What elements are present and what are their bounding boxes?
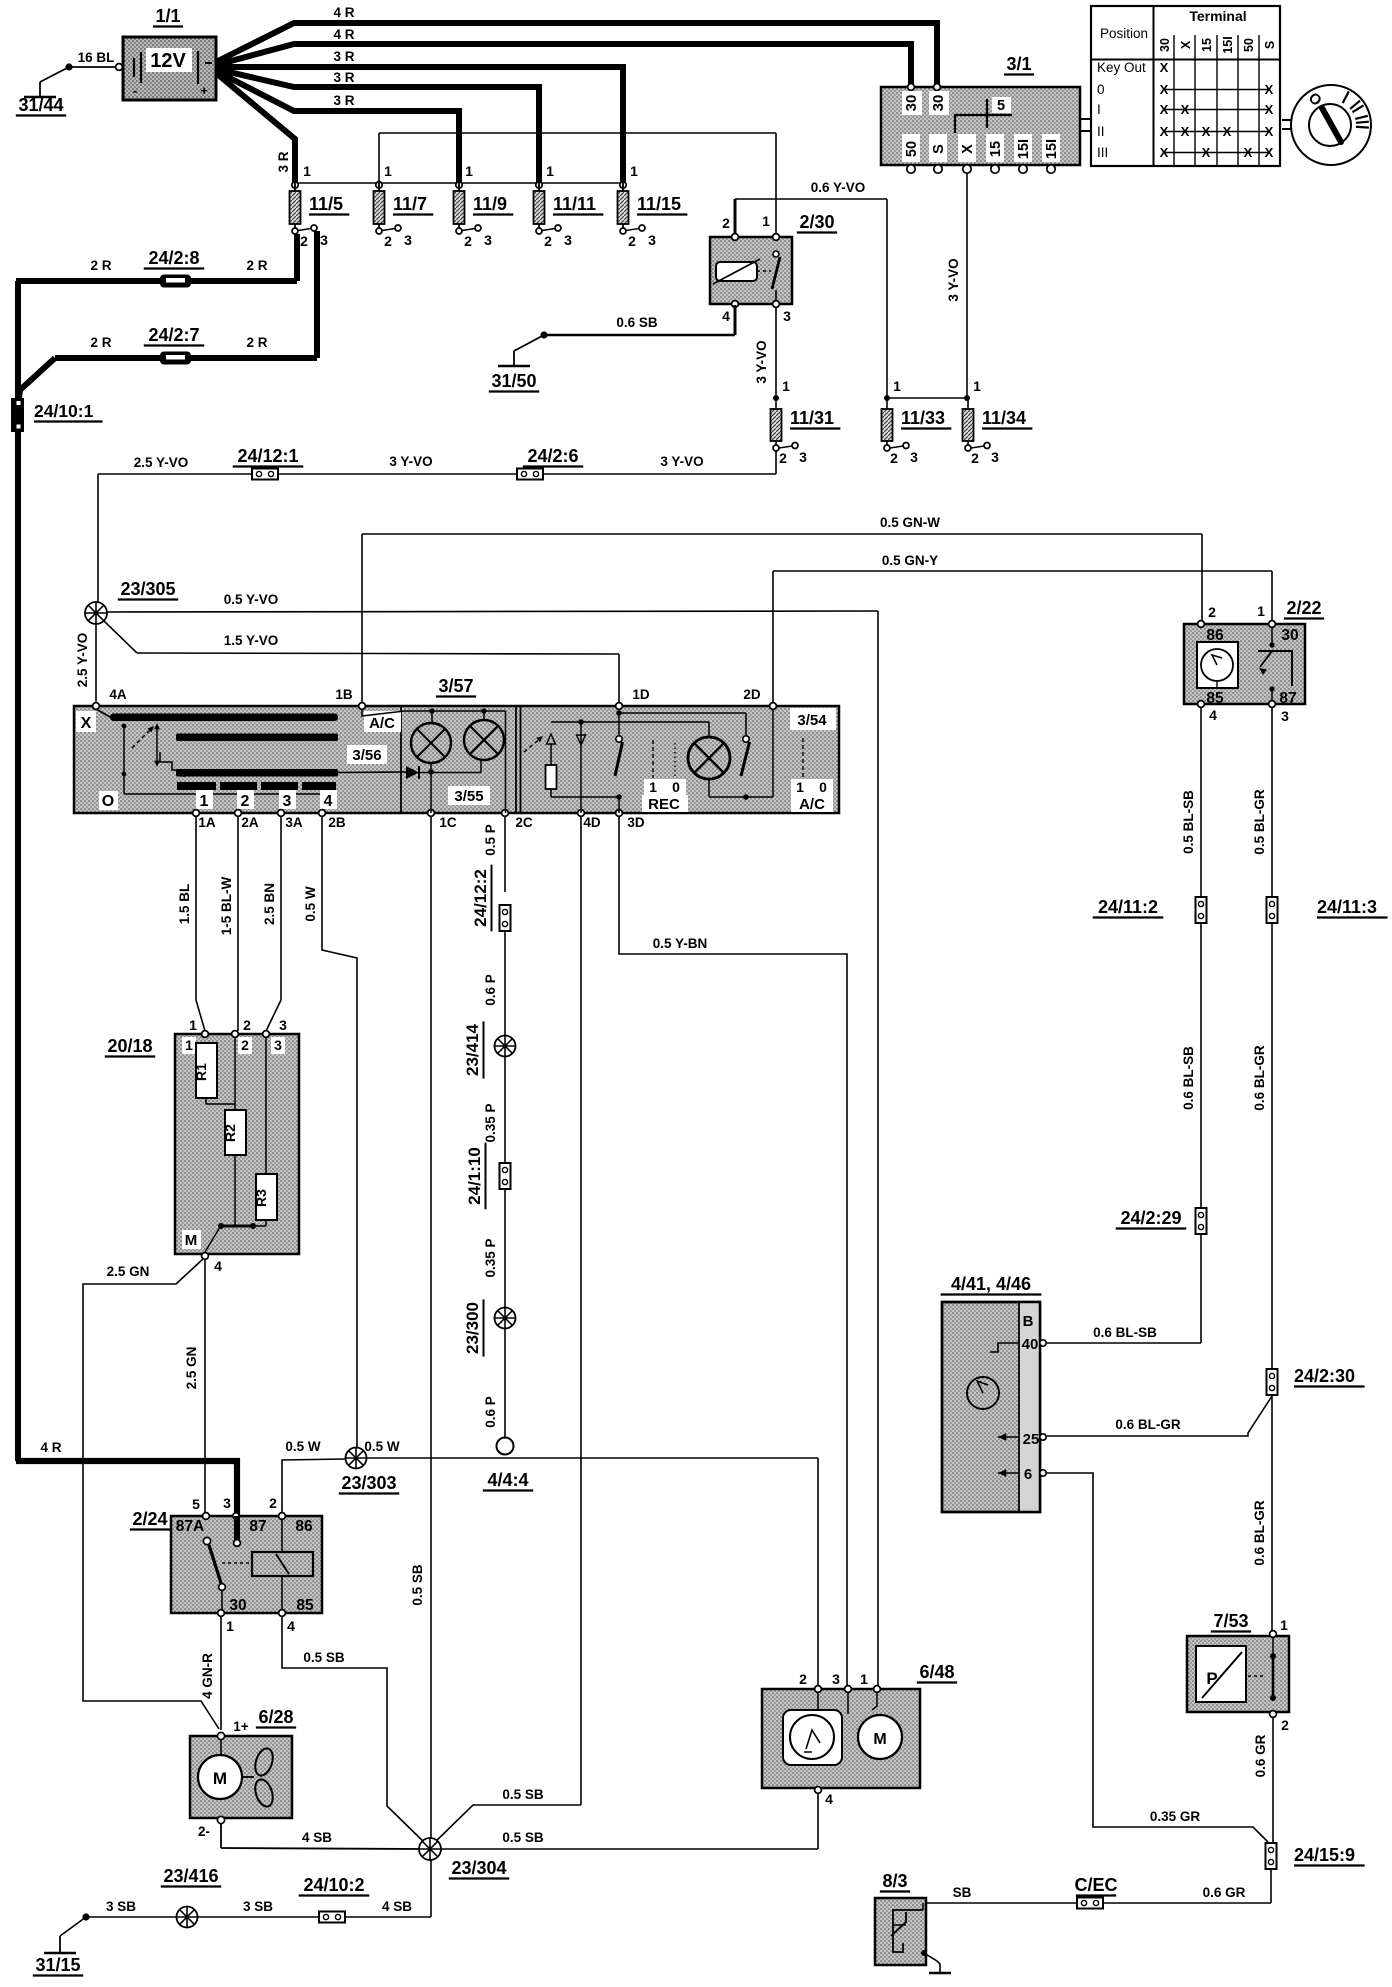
svg-text:3: 3: [279, 1017, 287, 1033]
svg-text:3: 3: [832, 1671, 840, 1687]
svg-text:11/7: 11/7: [393, 194, 427, 214]
svg-text:0: 0: [1097, 82, 1105, 97]
svg-text:O: O: [102, 793, 114, 810]
svg-text:S: S: [1263, 41, 1277, 49]
svg-text:3: 3: [783, 308, 791, 324]
svg-text:REC: REC: [648, 796, 680, 813]
svg-text:2A: 2A: [241, 815, 259, 830]
svg-text:4 SB: 4 SB: [382, 1899, 412, 1914]
svg-text:2-: 2-: [198, 1824, 210, 1839]
svg-text:3: 3: [799, 449, 807, 465]
svg-text:0.6 GR: 0.6 GR: [1253, 1734, 1268, 1777]
svg-text:3 R: 3 R: [333, 93, 354, 108]
svg-text:11/15: 11/15: [637, 194, 681, 214]
svg-text:X: X: [1160, 124, 1169, 139]
svg-text:3 Y-VO: 3 Y-VO: [754, 340, 769, 383]
svg-text:X: X: [81, 715, 92, 732]
svg-text:2: 2: [628, 233, 636, 249]
svg-text:4 GN-R: 4 GN-R: [200, 1653, 215, 1699]
svg-text:2: 2: [1208, 604, 1216, 620]
svg-text:3 R: 3 R: [333, 49, 354, 64]
svg-text:2: 2: [241, 1037, 249, 1053]
svg-text:R2: R2: [222, 1124, 238, 1142]
svg-text:31/44: 31/44: [18, 95, 63, 115]
svg-text:85: 85: [296, 1597, 314, 1614]
svg-text:2: 2: [300, 233, 308, 249]
svg-text:7/53: 7/53: [1213, 1611, 1248, 1631]
svg-text:1: 1: [860, 1671, 868, 1687]
svg-text:87A: 87A: [176, 1518, 204, 1535]
svg-text:3: 3: [320, 232, 328, 248]
svg-text:0.5 SB: 0.5 SB: [502, 1830, 544, 1845]
svg-text:0.6 BL-GR: 0.6 BL-GR: [1252, 1500, 1267, 1566]
svg-text:20/18: 20/18: [107, 1036, 152, 1056]
svg-text:2: 2: [544, 233, 552, 249]
svg-text:2.5 GN: 2.5 GN: [107, 1264, 150, 1279]
svg-text:24/1:10: 24/1:10: [465, 1147, 484, 1205]
svg-text:87: 87: [1279, 690, 1296, 707]
svg-text:1A: 1A: [198, 815, 216, 830]
svg-text:2.5 Y-VO: 2.5 Y-VO: [75, 633, 90, 688]
svg-text:40: 40: [1022, 1336, 1039, 1353]
svg-text:0.35 P: 0.35 P: [483, 1238, 498, 1277]
svg-text:3/55: 3/55: [454, 788, 483, 805]
svg-text:0.6 BL-SB: 0.6 BL-SB: [1093, 1325, 1157, 1340]
svg-text:87: 87: [249, 1518, 266, 1535]
svg-text:24/2:29: 24/2:29: [1120, 1208, 1181, 1228]
svg-text:24/10:2: 24/10:2: [303, 1875, 364, 1895]
svg-text:4/41, 4/46: 4/41, 4/46: [951, 1274, 1031, 1294]
svg-text:2: 2: [243, 1017, 251, 1033]
svg-text:3 Y-VO: 3 Y-VO: [946, 258, 961, 301]
svg-text:0.5 GN-Y: 0.5 GN-Y: [882, 553, 938, 568]
svg-text:2.5 GN: 2.5 GN: [184, 1347, 199, 1390]
svg-text:2 R: 2 R: [90, 258, 111, 273]
svg-text:3/1: 3/1: [1006, 54, 1031, 74]
svg-text:0.35 GR: 0.35 GR: [1150, 1809, 1201, 1824]
svg-text:0: 0: [819, 779, 827, 795]
svg-text:0.5 GN-W: 0.5 GN-W: [880, 515, 940, 530]
svg-text:15I: 15I: [1044, 139, 1060, 159]
svg-text:3 Y-VO: 3 Y-VO: [389, 454, 432, 469]
svg-text:M: M: [213, 1769, 227, 1788]
svg-text:2: 2: [890, 450, 898, 466]
svg-text:X: X: [1223, 124, 1232, 139]
svg-text:2: 2: [464, 233, 472, 249]
svg-text:Key Out: Key Out: [1097, 60, 1146, 75]
svg-text:0.6 BL-GR: 0.6 BL-GR: [1252, 1045, 1267, 1111]
svg-text:2D: 2D: [743, 687, 761, 702]
svg-text:23/300: 23/300: [463, 1302, 482, 1354]
svg-text:X: X: [1160, 145, 1169, 160]
svg-text:X: X: [1160, 102, 1169, 117]
svg-text:2.5 BN: 2.5 BN: [262, 883, 277, 925]
svg-text:3/54: 3/54: [797, 712, 827, 729]
svg-text:1: 1: [303, 163, 311, 179]
svg-text:24/12:1: 24/12:1: [237, 446, 298, 466]
svg-text:X: X: [1202, 124, 1211, 139]
svg-text:0: 0: [672, 779, 680, 795]
svg-text:3: 3: [910, 449, 918, 465]
svg-text:0.5 SB: 0.5 SB: [502, 1787, 544, 1802]
svg-text:30: 30: [1281, 627, 1298, 644]
svg-text:1: 1: [893, 378, 901, 394]
svg-text:0.6 BL-GR: 0.6 BL-GR: [1115, 1417, 1181, 1432]
svg-text:15: 15: [1200, 38, 1214, 52]
svg-text:2: 2: [384, 233, 392, 249]
svg-text:31/50: 31/50: [491, 371, 536, 391]
svg-text:24/10:1: 24/10:1: [34, 401, 94, 421]
svg-text:24/2:6: 24/2:6: [527, 446, 578, 466]
svg-text:4D: 4D: [583, 815, 601, 830]
svg-text:X: X: [1160, 82, 1169, 97]
svg-text:0.6 SB: 0.6 SB: [616, 315, 658, 330]
svg-text:1B: 1B: [335, 687, 353, 702]
svg-text:11/34: 11/34: [982, 408, 1026, 428]
svg-text:A/C: A/C: [799, 796, 825, 813]
svg-text:1: 1: [762, 213, 770, 229]
svg-text:50: 50: [904, 141, 920, 157]
svg-text:3: 3: [484, 232, 492, 248]
svg-text:III: III: [1097, 145, 1108, 160]
svg-text:1: 1: [226, 1618, 234, 1634]
svg-text:1: 1: [630, 163, 638, 179]
svg-text:4 SB: 4 SB: [302, 1830, 332, 1845]
svg-text:24/2:30: 24/2:30: [1294, 1366, 1355, 1386]
svg-text:M: M: [873, 1731, 886, 1748]
svg-text:3D: 3D: [627, 815, 645, 830]
svg-text:23/303: 23/303: [341, 1473, 396, 1493]
svg-text:5: 5: [192, 1496, 200, 1512]
svg-text:0.5 SB: 0.5 SB: [303, 1650, 345, 1665]
svg-text:2/24: 2/24: [132, 1509, 167, 1529]
svg-text:3A: 3A: [285, 815, 303, 830]
svg-text:2: 2: [269, 1495, 277, 1511]
svg-text:I: I: [1097, 102, 1101, 117]
svg-text:X: X: [1265, 82, 1274, 97]
svg-text:6/48: 6/48: [919, 1662, 954, 1682]
svg-text:4 R: 4 R: [40, 1440, 61, 1455]
svg-text:24/2:7: 24/2:7: [148, 325, 199, 345]
svg-text:1: 1: [384, 163, 392, 179]
svg-text:0.35 P: 0.35 P: [483, 1103, 498, 1142]
svg-text:1C: 1C: [439, 815, 457, 830]
svg-text:11/5: 11/5: [309, 194, 343, 214]
svg-text:15I: 15I: [1221, 36, 1235, 53]
svg-text:11/11: 11/11: [553, 194, 596, 214]
svg-text:X: X: [1179, 40, 1193, 49]
svg-text:X: X: [1181, 102, 1190, 117]
svg-text:3: 3: [991, 449, 999, 465]
svg-text:6: 6: [1024, 1466, 1032, 1483]
svg-text:4: 4: [722, 308, 730, 324]
svg-text:3 SB: 3 SB: [106, 1899, 136, 1914]
svg-text:24/11:2: 24/11:2: [1098, 897, 1158, 917]
svg-text:3: 3: [1281, 708, 1289, 724]
svg-text:3: 3: [404, 232, 412, 248]
svg-text:24/2:8: 24/2:8: [148, 248, 199, 268]
svg-text:A/C: A/C: [369, 715, 395, 732]
svg-text:X: X: [1160, 60, 1169, 75]
svg-text:C/EC: C/EC: [1074, 1875, 1117, 1895]
svg-text:4: 4: [214, 1258, 222, 1274]
svg-text:3 Y-VO: 3 Y-VO: [660, 454, 703, 469]
svg-text:X: X: [1265, 145, 1274, 160]
svg-text:30: 30: [229, 1597, 246, 1614]
svg-text:1-5 BL-W: 1-5 BL-W: [219, 876, 234, 935]
svg-text:II: II: [1097, 124, 1105, 139]
svg-text:3 R: 3 R: [276, 151, 291, 172]
svg-text:30: 30: [930, 95, 947, 112]
svg-text:1: 1: [1257, 603, 1265, 619]
svg-text:1: 1: [649, 779, 657, 795]
svg-text:Terminal: Terminal: [1189, 8, 1246, 24]
svg-text:1: 1: [782, 378, 790, 394]
svg-text:11/9: 11/9: [473, 194, 507, 214]
svg-text:11/33: 11/33: [901, 408, 945, 428]
svg-text:1.5 BL: 1.5 BL: [177, 884, 192, 925]
svg-text:86: 86: [295, 1518, 313, 1535]
svg-text:0.6 GR: 0.6 GR: [1203, 1885, 1246, 1900]
svg-text:50: 50: [1242, 38, 1256, 52]
svg-text:31/15: 31/15: [35, 1955, 80, 1975]
svg-text:R1: R1: [193, 1063, 209, 1081]
svg-text:86: 86: [1206, 627, 1224, 644]
svg-text:2 R: 2 R: [246, 335, 267, 350]
svg-text:23/416: 23/416: [163, 1866, 218, 1886]
svg-text:X: X: [960, 144, 976, 154]
svg-text:1: 1: [1280, 1617, 1288, 1633]
svg-text:3: 3: [648, 232, 656, 248]
svg-text:24/15:9: 24/15:9: [1294, 1845, 1355, 1865]
svg-text:2: 2: [722, 215, 730, 231]
svg-text:4 R: 4 R: [333, 5, 354, 20]
svg-text:X: X: [1244, 145, 1253, 160]
svg-text:0.5 Y-BN: 0.5 Y-BN: [653, 936, 708, 951]
svg-text:3/56: 3/56: [352, 747, 381, 764]
svg-text:3: 3: [283, 793, 292, 810]
svg-text:1: 1: [189, 1017, 197, 1033]
svg-text:0.5 BL-SB: 0.5 BL-SB: [1181, 790, 1196, 854]
svg-text:0.5 BL-GR: 0.5 BL-GR: [1252, 789, 1267, 855]
svg-text:+: +: [200, 83, 208, 98]
svg-text:11/31: 11/31: [790, 408, 834, 428]
svg-text:3 R: 3 R: [333, 70, 354, 85]
svg-text:0.5 Y-VO: 0.5 Y-VO: [224, 592, 279, 607]
svg-text:SB: SB: [953, 1885, 972, 1900]
svg-text:23/414: 23/414: [463, 1023, 482, 1076]
svg-text:4A: 4A: [109, 687, 127, 702]
svg-text:8/3: 8/3: [882, 1871, 907, 1891]
svg-text:24/11:3: 24/11:3: [1317, 897, 1377, 917]
svg-text:3/57: 3/57: [438, 676, 473, 696]
svg-text:24/12:2: 24/12:2: [471, 869, 490, 927]
svg-text:R3: R3: [253, 1189, 269, 1207]
svg-text:4: 4: [287, 1618, 295, 1634]
svg-text:0.5 W: 0.5 W: [303, 886, 318, 922]
svg-text:2 R: 2 R: [246, 258, 267, 273]
svg-text:1: 1: [465, 163, 473, 179]
svg-text:0.5 P: 0.5 P: [483, 824, 498, 856]
svg-text:1D: 1D: [632, 687, 650, 702]
svg-text:2 R: 2 R: [90, 335, 111, 350]
svg-text:1: 1: [546, 163, 554, 179]
svg-text:6/28: 6/28: [258, 1707, 293, 1727]
svg-text:2.5 Y-VO: 2.5 Y-VO: [134, 455, 189, 470]
svg-text:4: 4: [1209, 707, 1217, 723]
svg-text:X: X: [1181, 124, 1190, 139]
svg-text:0.6 P: 0.6 P: [483, 974, 498, 1006]
svg-text:X: X: [1265, 124, 1274, 139]
svg-text:M: M: [185, 1232, 198, 1249]
svg-text:4/4:4: 4/4:4: [487, 1470, 528, 1490]
svg-text:1/1: 1/1: [155, 6, 180, 26]
svg-text:1: 1: [200, 793, 209, 810]
svg-text:2: 2: [799, 1671, 807, 1687]
svg-text:3 SB: 3 SB: [243, 1899, 273, 1914]
svg-text:2: 2: [971, 450, 979, 466]
svg-text:12V: 12V: [150, 50, 186, 72]
svg-text:1: 1: [973, 378, 981, 394]
svg-text:30: 30: [903, 95, 920, 112]
svg-text:S: S: [931, 144, 947, 154]
svg-text:B: B: [1023, 1313, 1034, 1330]
svg-text:1: 1: [796, 779, 804, 795]
svg-text:3: 3: [564, 232, 572, 248]
svg-text:3: 3: [274, 1037, 282, 1053]
svg-text:3: 3: [223, 1495, 231, 1511]
svg-text:-: -: [133, 83, 137, 98]
svg-text:4: 4: [825, 1791, 833, 1807]
svg-text:2/30: 2/30: [799, 212, 834, 232]
svg-text:0.6 Y-VO: 0.6 Y-VO: [811, 180, 866, 195]
svg-text:25: 25: [1023, 1431, 1040, 1448]
svg-text:30: 30: [1158, 38, 1172, 52]
svg-text:23/304: 23/304: [451, 1858, 506, 1878]
svg-text:23/305: 23/305: [120, 579, 175, 599]
svg-text:2/22: 2/22: [1286, 598, 1321, 618]
svg-text:4 R: 4 R: [333, 27, 354, 42]
svg-text:4: 4: [324, 793, 333, 810]
svg-text:1: 1: [185, 1037, 193, 1053]
svg-text:15: 15: [988, 141, 1004, 157]
svg-text:2: 2: [779, 450, 787, 466]
svg-text:2C: 2C: [515, 815, 533, 830]
svg-text:2B: 2B: [328, 815, 346, 830]
svg-text:X: X: [1202, 145, 1211, 160]
svg-text:0.5 SB: 0.5 SB: [410, 1564, 425, 1606]
svg-text:Position: Position: [1100, 26, 1148, 41]
svg-text:16 BL: 16 BL: [78, 50, 115, 65]
svg-text:1.5 Y-VO: 1.5 Y-VO: [224, 633, 279, 648]
svg-text:85: 85: [1206, 690, 1224, 707]
svg-text:1+: 1+: [233, 1719, 249, 1734]
svg-text:X: X: [1265, 102, 1274, 117]
svg-text:2: 2: [241, 793, 250, 810]
svg-text:0.5 W: 0.5 W: [285, 1439, 321, 1454]
svg-text:2: 2: [1281, 1717, 1289, 1733]
svg-text:0.5 W: 0.5 W: [364, 1439, 400, 1454]
svg-text:0.6 BL-SB: 0.6 BL-SB: [1181, 1046, 1196, 1110]
svg-text:15I: 15I: [1016, 139, 1032, 159]
svg-text:0.6 P: 0.6 P: [483, 1396, 498, 1428]
svg-text:5: 5: [997, 98, 1005, 114]
